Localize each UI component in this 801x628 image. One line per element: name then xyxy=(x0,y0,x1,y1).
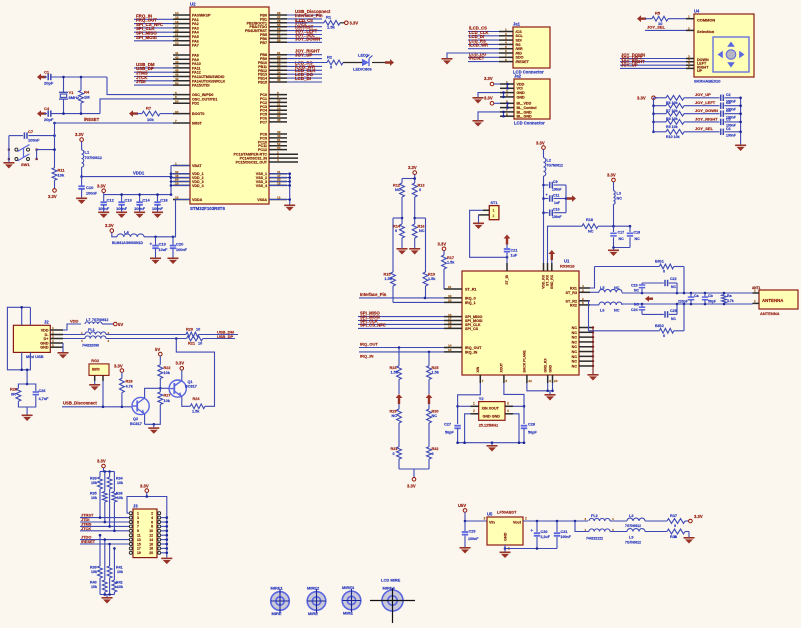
resistor R19 xyxy=(423,272,436,298)
wire LED row xyxy=(287,62,386,64)
svg-text:ST1: ST1 xyxy=(491,201,498,205)
mounting hole MIRE2 xyxy=(307,585,326,616)
svg-text:BLM41AG600SN1D: BLM41AG600SN1D xyxy=(112,241,143,245)
svg-text:R9 10k: R9 10k xyxy=(666,125,678,129)
ground under C29 xyxy=(460,547,471,554)
svg-text:8: 8 xyxy=(505,379,507,383)
svg-text:1: 1 xyxy=(52,326,54,330)
U2 left pins xyxy=(173,11,226,202)
wire net USB_DM to U2 xyxy=(134,62,173,68)
svg-text:R19: R19 xyxy=(428,272,435,276)
svg-text:NC: NC xyxy=(572,355,578,359)
svg-text:3.3V: 3.3V xyxy=(694,514,703,519)
wire /LCD_CS row xyxy=(287,18,324,23)
svg-text:R26: R26 xyxy=(10,388,17,392)
svg-text:R31: R31 xyxy=(391,447,398,451)
wire net JTDO from U2 xyxy=(287,21,322,27)
svg-text:GND GND: GND GND xyxy=(483,415,501,419)
Ja2 pins xyxy=(500,80,537,118)
wire joystick RC right rail xyxy=(739,97,742,145)
svg-text:1.5k: 1.5k xyxy=(447,261,455,265)
wire net JTCK to J3 xyxy=(80,502,130,532)
svg-text:U5: U5 xyxy=(487,511,493,516)
svg-text:SW1: SW1 xyxy=(21,162,30,167)
ST1 pins xyxy=(479,210,490,215)
svg-text:VDD1: VDD1 xyxy=(133,171,145,176)
svg-text:JOY_UP: JOY_UP xyxy=(621,62,638,67)
svg-text:9: 9 xyxy=(549,379,551,383)
U4 joystick icon xyxy=(713,37,749,72)
svg-text:D+: D+ xyxy=(44,337,49,341)
wire net JTRST to J3 xyxy=(80,489,130,519)
svg-text:IRQ_IN: IRQ_IN xyxy=(465,350,478,354)
svg-text:11: 11 xyxy=(137,534,141,538)
capacitor C21 xyxy=(504,245,518,264)
svg-text:USB_DP: USB_DP xyxy=(217,334,234,339)
wire net JOY_RIGHT from U2 xyxy=(287,49,322,55)
capacitor C12 xyxy=(98,195,114,212)
svg-text:54: 54 xyxy=(175,99,179,103)
svg-text:10: 10 xyxy=(149,529,153,533)
svg-text:60: 60 xyxy=(175,110,179,114)
svg-text:100nF: 100nF xyxy=(176,248,188,252)
svg-text:17: 17 xyxy=(137,547,141,551)
svg-text:BACK PLANE: BACK PLANE xyxy=(523,350,527,373)
svg-text:C18: C18 xyxy=(634,230,641,234)
svg-text:R15: R15 xyxy=(384,272,391,276)
svg-text:Selection: Selection xyxy=(697,29,715,34)
power port 3.3V at Ja2 VDD xyxy=(484,76,500,86)
wire net JTMS to U2 xyxy=(134,71,173,77)
svg-text:R35: R35 xyxy=(90,491,97,495)
svg-text:IRQ_0: IRQ_0 xyxy=(465,296,476,300)
power port 3.3V under R11 xyxy=(48,180,57,199)
svg-text:GND: GND xyxy=(517,95,526,99)
power port 3.3V output xyxy=(689,514,703,523)
svg-text:R39: R39 xyxy=(90,566,97,570)
svg-text:R13: R13 xyxy=(418,183,425,187)
svg-text:C16: C16 xyxy=(553,208,560,212)
wire net SPI_MISO to U1 xyxy=(358,311,444,317)
resistor R34 xyxy=(107,472,123,490)
wire Y2 bottom rail xyxy=(456,441,525,445)
svg-text:C14: C14 xyxy=(142,198,150,203)
svg-text:UP: UP xyxy=(697,69,703,73)
svg-text:FL1: FL1 xyxy=(88,328,95,332)
svg-text:20: 20 xyxy=(149,551,153,555)
wire net JOY_UP xyxy=(684,92,720,98)
wire net JOY_LEFT from U2 xyxy=(287,29,322,35)
capacitor C14 xyxy=(134,193,150,211)
svg-text:3.3V: 3.3V xyxy=(75,132,84,137)
svg-text:R7: R7 xyxy=(146,105,152,110)
svg-text:BIG1: BIG1 xyxy=(655,259,664,263)
svg-text:C12: C12 xyxy=(107,198,115,203)
wire C17 C18 join xyxy=(612,246,630,249)
svg-text:7G7N0612: 7G7N0612 xyxy=(625,541,641,545)
J2 pins xyxy=(40,326,63,349)
resistor R22 xyxy=(158,365,171,389)
svg-text:XIN: XIN xyxy=(476,366,480,372)
svg-text:MIRE: MIRE xyxy=(343,611,353,616)
svg-text:R33: R33 xyxy=(90,477,97,481)
resistor R28 xyxy=(120,378,134,407)
svg-text:Ja1: Ja1 xyxy=(513,21,521,26)
svg-text:PA15/JTDI: PA15/JTDI xyxy=(192,84,210,88)
svg-text:L7: L7 xyxy=(86,318,90,322)
power port 3.3V at L2 xyxy=(536,140,545,158)
wire top bypass rail xyxy=(595,267,685,294)
svg-text:LED/C806: LED/C806 xyxy=(353,67,372,72)
svg-text:Vin: Vin xyxy=(489,521,496,525)
svg-text:VDD_4: VDD_4 xyxy=(192,184,204,188)
svg-text:10k: 10k xyxy=(91,496,97,500)
svg-text:R32: R32 xyxy=(432,447,439,451)
svg-text:14: 14 xyxy=(149,538,153,542)
svg-text:50: 50 xyxy=(175,81,179,85)
svg-text:L6: L6 xyxy=(600,308,604,312)
svg-text:LF50ABDT: LF50ABDT xyxy=(497,510,517,514)
wire net SPI_MOSI to U2 xyxy=(134,35,173,41)
wire net SPI_MOSI to U1 xyxy=(358,315,444,321)
power port 3.3V at R12 R13 xyxy=(408,165,417,178)
svg-text:NC: NC xyxy=(392,414,398,418)
wire net JOY_RIGHT to U4 xyxy=(620,59,686,65)
capacitor C24 xyxy=(631,302,645,314)
svg-text:22: 22 xyxy=(528,379,532,383)
svg-text:8: 8 xyxy=(505,58,507,62)
wire joystick RC left rail xyxy=(652,98,655,133)
svg-text:R42: R42 xyxy=(116,580,123,584)
svg-text:JOY_DOWN: JOY_DOWN xyxy=(295,36,320,41)
svg-text:7: 7 xyxy=(175,119,177,123)
svg-text:C2: C2 xyxy=(726,93,731,97)
svg-text:JOY_UP: JOY_UP xyxy=(295,53,312,58)
svg-text:100nF: 100nF xyxy=(468,537,479,541)
power port 3.3V under IRQ pulls xyxy=(407,478,416,489)
svg-text:C4: C4 xyxy=(44,106,50,111)
svg-text:3.3V: 3.3V xyxy=(637,95,646,100)
svg-text:C31: C31 xyxy=(561,530,568,534)
svg-text:Q1: Q1 xyxy=(188,380,193,384)
resistor R4 xyxy=(79,90,91,104)
resistor R8 xyxy=(654,111,685,121)
connector Ja1 body xyxy=(513,21,550,74)
svg-text:C19: C19 xyxy=(159,241,167,246)
svg-text:2,2uF: 2,2uF xyxy=(541,535,551,539)
svg-text:21: 21 xyxy=(448,285,452,289)
svg-text:0: 0 xyxy=(674,535,676,539)
wire R24 to USB_DP xyxy=(176,339,214,407)
svg-text:NC: NC xyxy=(419,229,425,233)
power port 3.3V at joystick RC xyxy=(637,95,658,100)
svg-text:1M: 1M xyxy=(84,95,90,100)
svg-text:13: 13 xyxy=(448,348,452,352)
ground under R16 xyxy=(409,248,420,255)
svg-text:36: 36 xyxy=(277,78,281,82)
svg-text:23: 23 xyxy=(175,41,179,45)
svg-text:C22: C22 xyxy=(670,277,677,281)
switch SW1 xyxy=(8,123,56,168)
svg-text:JOY_SEL: JOY_SEL xyxy=(647,24,666,29)
wire net LCD_DO from U2 xyxy=(287,72,322,78)
wire IRQ pull columns xyxy=(399,348,429,366)
U2 right pins xyxy=(234,11,298,202)
svg-text:2: 2 xyxy=(688,26,690,30)
svg-text:LCD Connector: LCD Connector xyxy=(514,121,545,126)
svg-text:/RESET: /RESET xyxy=(81,539,96,544)
resistor R39 xyxy=(90,566,102,595)
svg-text:C9: C9 xyxy=(553,180,558,184)
svg-text:3.3V: 3.3V xyxy=(350,20,359,25)
svg-text:STM32F103R8T6: STM32F103R8T6 xyxy=(190,206,225,211)
svg-text:SPI_MOSI: SPI_MOSI xyxy=(136,35,157,40)
svg-text:C6: C6 xyxy=(726,127,731,131)
capacitor C9 xyxy=(544,180,567,192)
svg-text:R37: R37 xyxy=(670,514,677,518)
svg-text:13: 13 xyxy=(137,538,141,542)
svg-text:5: 5 xyxy=(582,301,584,305)
inductor L5 xyxy=(590,286,622,293)
svg-text:NC: NC xyxy=(634,289,639,293)
RF chip U1 body xyxy=(462,258,579,375)
U1 top pins xyxy=(505,263,554,289)
svg-text:100nF: 100nF xyxy=(552,215,562,219)
svg-text:R27: R27 xyxy=(164,394,171,398)
svg-text:R21: R21 xyxy=(188,342,195,346)
power arrow up left xyxy=(396,394,403,404)
ground at Ja2 GND xyxy=(473,97,484,104)
svg-text:4: 4 xyxy=(151,516,153,520)
wire U5 output xyxy=(523,520,588,523)
wire VDD_RX rail xyxy=(542,176,545,263)
ground at ST1 xyxy=(473,223,484,230)
svg-text:/LCD_WR: /LCD_WR xyxy=(469,43,488,48)
wire net /LCD_CS to Ja1 xyxy=(468,26,499,32)
capacitor C23 xyxy=(631,283,645,293)
svg-text:L5: L5 xyxy=(600,286,604,290)
power port 3.3V above L1 xyxy=(75,132,84,150)
ground under RG2 xyxy=(89,381,100,391)
svg-text:1uF: 1uF xyxy=(511,254,518,258)
power port 3.3V at Q1 xyxy=(176,360,185,380)
capacitor C20 xyxy=(170,237,188,258)
resistor R6 xyxy=(654,95,685,105)
capacitor C19 xyxy=(150,237,169,258)
svg-text:59: 59 xyxy=(277,39,281,43)
svg-text:7G7N0612: 7G7N0612 xyxy=(625,524,641,528)
U4 pin names xyxy=(697,18,715,74)
capacitor C17 xyxy=(610,226,624,247)
svg-text:U4: U4 xyxy=(694,8,700,13)
wire net JTCK to U2 xyxy=(134,75,173,81)
resistor BIG2 xyxy=(655,324,674,338)
capacitor C25 xyxy=(642,304,677,321)
inductor L4 xyxy=(112,229,144,244)
ground at R38 xyxy=(684,537,695,544)
wire net LCD_DI to Ja1 xyxy=(468,34,499,40)
svg-text:100nF: 100nF xyxy=(552,187,562,191)
ground under C13 xyxy=(116,212,127,219)
wire VDD1 net xyxy=(80,167,171,178)
svg-text:Mini USB: Mini USB xyxy=(26,354,44,359)
svg-text:R40: R40 xyxy=(90,580,97,584)
svg-text:L3: L3 xyxy=(617,191,621,195)
svg-text:100nF: 100nF xyxy=(98,207,110,211)
wire net LCD_RS to Ja1 xyxy=(468,38,499,44)
svg-text:3.3V: 3.3V xyxy=(140,484,149,489)
crystal module Y2 body xyxy=(479,396,505,427)
wire net USB_Disconnect xyxy=(62,401,132,409)
svg-text:6: 6 xyxy=(151,520,153,524)
svg-text:3.3V: 3.3V xyxy=(484,96,493,101)
svg-text:ANTENNA: ANTENNA xyxy=(760,311,780,316)
wire Ja2 BL_GND tie xyxy=(478,111,505,120)
capacitor C4 xyxy=(721,109,741,119)
wire antenna row B xyxy=(622,292,753,295)
svg-text:R5: R5 xyxy=(655,11,661,16)
ground JTAG pulldowns xyxy=(102,597,113,604)
resistor R2 xyxy=(327,54,343,69)
svg-text:2: 2 xyxy=(754,289,756,293)
wire JTAG pulldown join xyxy=(100,593,114,597)
svg-text:1: 1 xyxy=(493,208,495,212)
svg-text:10: 10 xyxy=(196,327,200,331)
ground at J3 xyxy=(161,558,172,565)
svg-text:3: 3 xyxy=(484,517,486,521)
power arrow up right xyxy=(426,394,433,404)
svg-text:7G7N0612: 7G7N0612 xyxy=(85,156,102,160)
svg-text:8: 8 xyxy=(151,525,153,529)
svg-text:MIRE2: MIRE2 xyxy=(307,585,320,590)
resistor R42 xyxy=(112,580,123,595)
svg-text:10: 10 xyxy=(198,342,202,346)
svg-text:38: 38 xyxy=(277,118,281,122)
svg-text:19: 19 xyxy=(137,551,141,555)
svg-text:100nF: 100nF xyxy=(28,138,40,143)
wire net IRQ_OUT xyxy=(359,342,444,349)
wire Ja2 GND tie xyxy=(478,91,505,98)
ground VSS xyxy=(284,205,295,212)
ground under C12 xyxy=(98,212,109,219)
resistor R38 xyxy=(667,529,689,539)
ground at J2 GND pins xyxy=(58,343,69,359)
svg-text:ANTENNA: ANTENNA xyxy=(762,298,784,303)
power port 3.3V at L4 xyxy=(105,223,117,237)
svg-text:C21: C21 xyxy=(511,248,518,252)
svg-text:RG2: RG2 xyxy=(91,359,99,363)
resistor R15 xyxy=(384,272,396,302)
svg-text:9: 9 xyxy=(137,529,139,533)
svg-text:GND_RX: GND_RX xyxy=(550,274,554,289)
wire bottom bypass rail xyxy=(589,304,685,331)
choke FL2 xyxy=(575,514,614,541)
net label USB_DM xyxy=(217,329,235,334)
svg-text:C13: C13 xyxy=(124,198,132,203)
svg-text:3.3V: 3.3V xyxy=(97,459,106,464)
wire JTAG pullup rail xyxy=(100,470,114,473)
svg-text:SPI_CS: SPI_CS xyxy=(465,327,479,331)
svg-text:20: 20 xyxy=(448,299,452,303)
svg-text:PB7: PB7 xyxy=(260,41,267,45)
capacitor C4 xyxy=(44,106,54,122)
svg-text:8: 8 xyxy=(506,112,508,116)
wire net SPI_MISO to U2 xyxy=(134,31,173,37)
svg-text:1: 1 xyxy=(137,512,139,516)
wire Q2 emitter to ground xyxy=(145,414,156,427)
svg-text:Q2: Q2 xyxy=(133,417,138,421)
wire R12 R13 top rail xyxy=(402,177,416,183)
ground under U1 xyxy=(545,394,556,401)
resistor R35 xyxy=(90,472,107,503)
svg-text:19: 19 xyxy=(448,294,452,298)
svg-text:10k: 10k xyxy=(91,481,97,485)
resistor R21 xyxy=(187,336,203,346)
svg-text:1.5k: 1.5k xyxy=(391,371,399,375)
svg-text:15: 15 xyxy=(137,542,141,546)
svg-text:VDD: VDD xyxy=(41,328,49,332)
wire Y2 GND loop xyxy=(465,414,519,443)
svg-text:6: 6 xyxy=(688,64,690,68)
svg-text:JOY_UP: JOY_UP xyxy=(695,92,711,97)
svg-text:RX9018: RX9018 xyxy=(560,263,575,268)
resistor R7 xyxy=(654,103,685,113)
svg-text:56pF: 56pF xyxy=(708,300,716,304)
wire J2 shell xyxy=(7,306,30,384)
ground under R14 xyxy=(397,248,408,255)
svg-text:100nF: 100nF xyxy=(152,207,164,211)
capacitor C29 xyxy=(462,529,479,547)
svg-text:NC: NC xyxy=(614,308,620,312)
wire IRQ pull join xyxy=(399,469,429,478)
resistor R14 xyxy=(393,224,404,248)
svg-text:2: 2 xyxy=(473,409,475,413)
svg-text:10uF: 10uF xyxy=(159,248,169,252)
power port 3.3V at Ja2 BL_VDD xyxy=(484,96,500,106)
svg-text:0: 0 xyxy=(663,334,665,338)
svg-text:JOY_LEFT: JOY_LEFT xyxy=(695,100,716,105)
svg-text:ST_R3: ST_R3 xyxy=(566,291,577,295)
wire cap stack right rail xyxy=(565,185,568,213)
svg-text:C11: C11 xyxy=(553,193,559,197)
wire USB DP line xyxy=(106,337,235,340)
svg-text:5V: 5V xyxy=(155,347,160,352)
svg-text:BC817: BC817 xyxy=(130,422,142,426)
svg-text:NC: NC xyxy=(572,340,578,344)
svg-text:3: 3 xyxy=(137,516,139,520)
regulator U5 body xyxy=(484,510,528,550)
resistor R9 xyxy=(654,120,685,130)
svg-text:R25: R25 xyxy=(432,366,439,370)
resistor Ra xyxy=(722,294,734,303)
svg-text:IRQ_OUT: IRQ_OUT xyxy=(465,346,482,350)
svg-text:NC: NC xyxy=(635,237,641,241)
svg-text:5V: 5V xyxy=(118,322,123,327)
svg-text:5: 5 xyxy=(137,520,139,524)
power arrow up GND_RX xyxy=(548,250,555,263)
svg-text:L2: L2 xyxy=(547,158,551,162)
wire net FRQ_OUT to U2 xyxy=(134,18,173,24)
svg-text:MIRE: MIRE xyxy=(308,611,318,616)
wire net Interface_Pin IRQ_0 xyxy=(359,292,444,299)
svg-text:1: 1 xyxy=(688,15,690,19)
svg-text:1.5k: 1.5k xyxy=(432,371,440,375)
LED LED1 xyxy=(353,53,373,72)
svg-text:R22: R22 xyxy=(164,366,171,370)
wire ST1 to C21 xyxy=(470,210,509,258)
wire net FRQ_IN to U2 xyxy=(134,13,173,19)
svg-text:COMMON: COMMON xyxy=(697,18,715,23)
